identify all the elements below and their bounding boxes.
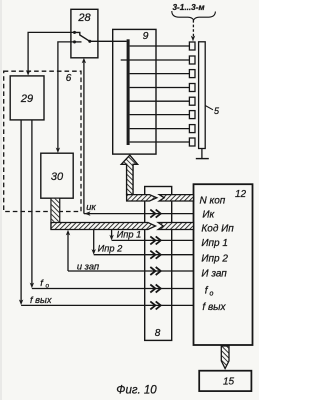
bus N kop segment B — [159, 195, 193, 201]
svg-text:5: 5 — [214, 106, 220, 116]
wire fo from block 29 — [31, 120, 33, 286]
arrow into block 28 bottom — [82, 58, 86, 64]
svg-text:ик: ик — [86, 202, 96, 212]
arrow into block 30 — [56, 148, 60, 154]
svg-text:N коп: N коп — [200, 196, 226, 207]
block 28 — [71, 9, 98, 58]
svg-text:f вых: f вых — [30, 295, 52, 305]
block 8 — [145, 187, 172, 341]
switch lower contact wire (to block 30) — [58, 42, 75, 151]
wire Izap horizontal — [68, 270, 194, 272]
arrow into block 29 — [26, 70, 30, 76]
switch upper contact wire (to block 29) — [28, 32, 74, 73]
arrow Ik pointing left — [85, 211, 91, 216]
chevron on Izap — [150, 267, 161, 275]
chevron on fo — [150, 285, 161, 293]
svg-text:о: о — [46, 283, 50, 290]
wire Ipr1 horizontal — [112, 239, 194, 241]
cell 3-1 — [189, 42, 195, 50]
paper left edge shading — [0, 0, 2, 400]
bus Kod Ip vertical from block 30 — [51, 198, 60, 229]
svg-text:Ипр 2: Ипр 2 — [98, 244, 124, 254]
bus Kod Ip segment A — [51, 223, 156, 230]
wire switch common to block 9 bar — [90, 40, 127, 42]
cell 3-4 — [189, 84, 195, 92]
block 15 — [199, 371, 251, 391]
output wire 1 of 9 — [130, 45, 190, 47]
svg-text:и зап: и зап — [77, 261, 99, 271]
pointer to label 5 — [205, 106, 213, 110]
wire Ik vertical up into block 28 — [83, 60, 85, 214]
svg-text:о: о — [210, 290, 214, 297]
output wire 2 of 9 (with tick through bar) — [121, 59, 190, 61]
cell 3-3 — [189, 70, 195, 78]
output wire 3 of 9 — [130, 73, 190, 75]
wire fvyh horizontal — [21, 304, 193, 306]
svg-text:6: 6 — [66, 73, 72, 84]
block 30 — [41, 153, 73, 198]
svg-text:f: f — [40, 278, 44, 288]
svg-text:Ипр 2: Ипр 2 — [201, 253, 228, 264]
cell 3-2 — [189, 56, 195, 64]
dashed leader arrow to cell 3-1 — [192, 20, 194, 37]
big hatched arrow into block 9 — [121, 155, 137, 194]
bus Kod Ip segment B — [158, 223, 193, 230]
chevron on Ipr2 — [150, 251, 161, 259]
svg-text:3-1...3-м: 3-1...3-м — [173, 3, 205, 12]
block 29 — [10, 76, 44, 120]
cell 3-6 — [189, 111, 195, 119]
switch S in block 28 — [73, 31, 76, 34]
indicator 5 — [199, 42, 206, 149]
output wire 5 of 9 — [130, 100, 190, 102]
bus N kop segment A — [127, 195, 157, 201]
svg-text:И зап: И зап — [201, 269, 227, 280]
svg-text:9: 9 — [143, 30, 149, 42]
wire Ik horizontal — [84, 213, 194, 215]
svg-text:Ипр 1: Ипр 1 — [117, 229, 142, 239]
output wire 7 of 9 — [130, 128, 190, 130]
svg-text:29: 29 — [20, 93, 33, 105]
cell 3-5 — [189, 97, 195, 105]
svg-text:Ик: Ик — [202, 209, 215, 220]
hatched arrow 12 to 15 — [221, 346, 229, 369]
chevron on Ik — [150, 210, 161, 218]
svg-text:30: 30 — [51, 171, 64, 183]
output wire 4 of 9 — [130, 87, 190, 89]
output wire 8 of 9 — [130, 141, 190, 143]
ground under 5 — [201, 149, 203, 159]
wire Ipr2 tap — [93, 230, 95, 253]
wire fo horizontal — [32, 288, 194, 290]
svg-text:12: 12 — [235, 189, 247, 200]
wire Ipr2 horizontal — [94, 254, 194, 256]
delay line bar in block 9 — [127, 39, 130, 145]
chevron on Ipr1 — [150, 236, 161, 244]
cell 3-8 — [189, 138, 195, 146]
chevron on fvyh — [150, 301, 161, 309]
svg-text:Ипр 1: Ипр 1 — [201, 238, 228, 249]
block 9 — [113, 29, 156, 154]
dashed block 6 — [4, 71, 81, 211]
svg-text:28: 28 — [77, 12, 91, 24]
svg-text:Фиг. 10: Фиг. 10 — [116, 385, 157, 397]
wire Izap vertical with up arrow into bus — [67, 232, 69, 271]
svg-text:15: 15 — [223, 377, 235, 388]
svg-text:8: 8 — [155, 328, 161, 339]
output wire 6 of 9 — [130, 114, 190, 116]
wire Ipr1 tap — [111, 230, 113, 239]
wire fvyh from block 29 — [20, 120, 22, 303]
cell 3-7 — [189, 125, 195, 133]
block 12 — [194, 184, 253, 345]
svg-text:Код Ип: Код Ип — [201, 223, 234, 234]
svg-text:f: f — [205, 285, 209, 296]
brace under label — [172, 11, 216, 20]
svg-text:f вых: f вых — [202, 302, 226, 313]
